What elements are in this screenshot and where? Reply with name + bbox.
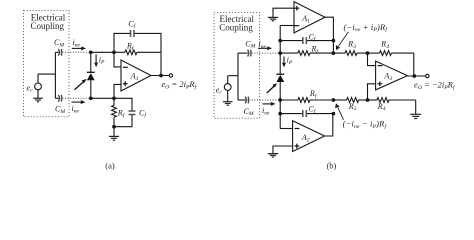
arrow to top node (b) — [336, 32, 349, 51]
resistor R_4 top (b) — [368, 51, 414, 56]
voltage source e_c (a) — [35, 74, 56, 98]
resistor R_3 top (b) — [333, 51, 367, 56]
wire: dotted coupling bottom (a) — [62, 97, 89, 99]
wire: A2 output up (b) — [325, 114, 333, 136]
wire: Rf bottom rail (b) — [280, 99, 298, 101]
wire: dotted coupling bottom (b) — [249, 99, 279, 101]
wire: output (b) — [407, 75, 425, 77]
node: output junction (b) — [412, 74, 416, 78]
wire: photodiode top stub (a) — [90, 52, 92, 72]
node: photodiode anode (a) — [89, 96, 93, 100]
op-amp A3 (b) — [376, 61, 408, 90]
svg-text:(−ine + iP)Rf: (−ine + iP)Rf — [344, 22, 389, 33]
current arrow i_P (b) — [282, 56, 286, 67]
node: left column Cf rail lower (b) — [278, 112, 282, 116]
wire: photodiode bottom stub (a) — [90, 80, 92, 98]
wire: non-inverting input (a) — [114, 84, 121, 98]
node: right column Rf rail lower (b) — [332, 98, 336, 102]
terminal: output (a) — [169, 74, 172, 77]
terminal: output (b) — [426, 74, 429, 77]
wire: dotted coupling top (a) — [62, 51, 89, 53]
svg-text:(a): (a) — [105, 160, 115, 170]
wire: A2 plus input to ground (b) — [273, 146, 293, 153]
wire: A1 minus input (b) — [280, 25, 294, 27]
capacitor C_M bottom (a) — [55, 95, 61, 102]
ground of A2 (b) — [268, 154, 278, 157]
wire: A2 minus input (b) — [280, 128, 292, 130]
wire: photodiode to plus node (a) — [91, 97, 114, 99]
op-amp A2 (b) — [293, 121, 325, 152]
wire: R4 bottom to ground (b) — [415, 100, 417, 114]
op-amp A3 (a) — [121, 60, 151, 91]
resistor R_4 bottom (b) — [368, 98, 416, 103]
coupling box (a) — [24, 11, 70, 117]
wire: A1 output down (b) — [325, 17, 333, 53]
photodiode D (b) — [276, 74, 284, 82]
svg-text:Coupling: Coupling — [219, 23, 253, 33]
wire: left column upper (b) — [279, 26, 281, 75]
node: inverting input (a) — [112, 50, 116, 54]
light arrow (a) — [75, 79, 87, 90]
capacitor C_M top (b) — [238, 50, 251, 57]
capacitor C_f bottom (b) — [302, 110, 307, 117]
node: ground junction (a) — [112, 125, 116, 129]
ground of e_c (a) — [33, 98, 43, 102]
wire: A1 plus input to ground (b) — [273, 8, 294, 17]
wire: junction drop to minus (b) — [368, 53, 376, 66]
resistor R_f ground branch (a) — [112, 98, 117, 126]
svg-text:Coupling: Coupling — [31, 21, 65, 31]
wire: plus input rise (b) — [368, 84, 376, 100]
arrow to bottom node (b) — [335, 103, 343, 120]
ground (a) — [109, 127, 119, 141]
current arrow i_ne top (a) — [72, 46, 86, 50]
capacitor C_f feedback (a) — [130, 30, 135, 37]
coupling box (b) — [214, 13, 260, 119]
node: left column Rf rail lower (b) — [278, 98, 282, 102]
wire: top node to inverting node (a) — [91, 51, 114, 53]
capacitor C_M top (a) — [55, 49, 61, 56]
node: R3 R4 junction top (b) — [366, 51, 370, 55]
svg-text:(−ine − iP)Rf: (−ine − iP)Rf — [343, 119, 388, 130]
node: A1 out Cf rail (b) — [332, 39, 336, 43]
ground of A1 (b) — [268, 17, 278, 20]
ground right (b) — [410, 114, 421, 118]
node: right column Cf rail lower (b) — [332, 112, 336, 116]
current arrow i_ne bottom (a) — [72, 100, 86, 104]
light arrow (b) — [267, 83, 278, 93]
wire: output (a) — [151, 75, 169, 77]
wire: R4 top to output (b) — [413, 53, 415, 76]
node: A1 out Rf rail (b) — [332, 51, 336, 55]
current arrow i_P (a) — [94, 54, 98, 67]
capacitor C_f top (b) — [302, 37, 307, 44]
wire: source feed vertical (b) — [237, 53, 239, 100]
voltage source e_c (b) — [224, 76, 238, 102]
wire: inverting input drop (a) — [114, 52, 121, 67]
wire: left column lower (b) — [279, 82, 281, 129]
wire: dotted coupling top (b) — [252, 52, 280, 54]
current arrow i_ne bottom (b) — [263, 102, 276, 106]
node: left column Cf rail (b) — [278, 39, 282, 43]
node: non-inverting network (a) — [112, 96, 116, 100]
node: left column Rf rail (b) — [278, 51, 282, 55]
wire: Cf bottom rail (b) — [280, 113, 333, 115]
resistor R_f feedback (a) — [114, 50, 161, 55]
resistor R_f top (b) — [280, 51, 333, 56]
photodiode D (a) — [87, 72, 95, 80]
op-amp A1 (b) — [294, 2, 325, 33]
resistor R_3 bottom (b) — [333, 98, 367, 103]
ground of e_c (b) — [223, 102, 233, 106]
svg-text:(b): (b) — [326, 160, 336, 170]
wire: feedback loop frame (a) — [114, 33, 161, 75]
capacitor C_M bottom (b) — [238, 97, 248, 104]
current arrow i_ne top (b) — [258, 46, 272, 50]
node: output junction (a) — [159, 74, 163, 78]
resistor R_f bottom (b) — [298, 98, 334, 103]
wire: Cf top rail (b) — [280, 40, 333, 42]
wire: source feed vertical (a) — [54, 52, 56, 98]
capacitor C_f ground branch (a) — [114, 98, 136, 126]
node: photodiode cathode (a) — [89, 50, 93, 54]
node: R3 R4 junction bottom (b) — [366, 98, 370, 102]
